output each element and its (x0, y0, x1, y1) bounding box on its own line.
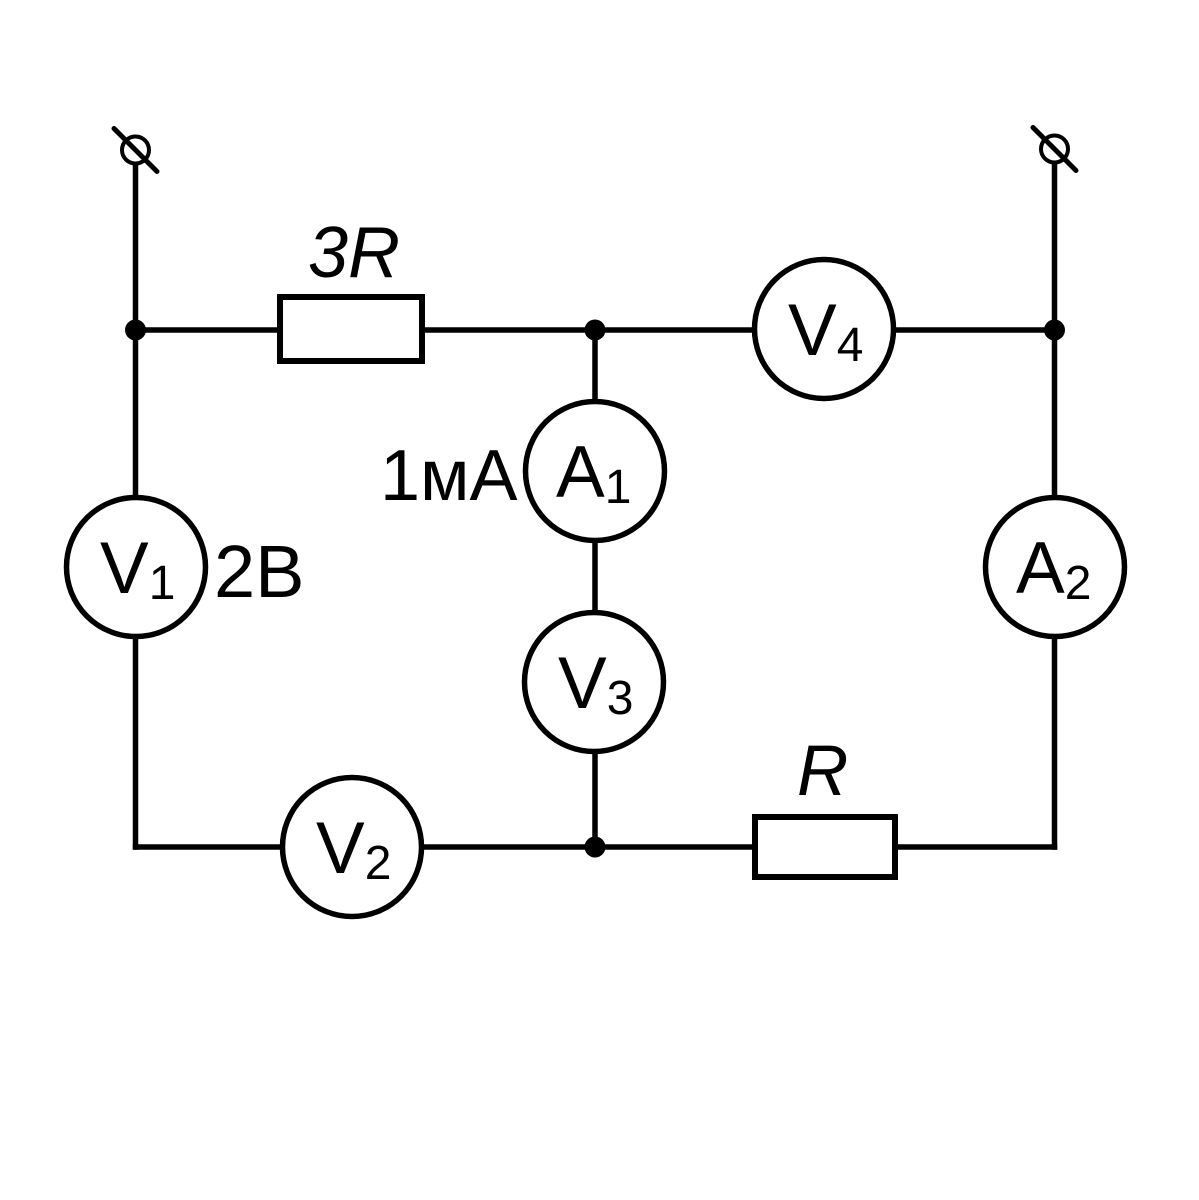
voltmeter V1 (67, 498, 206, 637)
terminal right (1033, 128, 1076, 171)
wire bottom horizontal branch (133, 844, 1057, 850)
node top-right junction (1044, 320, 1065, 341)
resistor R (755, 817, 895, 877)
wire middle vertical branch (592, 330, 598, 847)
terminal left (114, 129, 157, 172)
node bottom-middle junction (585, 837, 606, 858)
wire right vertical branch (1052, 164, 1058, 850)
wire left vertical branch (133, 164, 139, 850)
ammeter A2 (986, 498, 1125, 637)
voltmeter V2 (283, 778, 422, 917)
ammeter A1 (526, 402, 665, 541)
wire top horizontal branch (136, 327, 1055, 333)
resistor 3R (280, 297, 422, 361)
svg-text:2В: 2В (214, 530, 305, 613)
voltmeter V3 (525, 613, 664, 752)
node top-left junction (125, 320, 146, 341)
svg-text:3R: 3R (308, 213, 400, 293)
svg-text:R: R (797, 732, 848, 811)
node top-middle junction (585, 320, 606, 341)
svg-text:1мА: 1мА (380, 436, 518, 516)
voltmeter V4 (755, 260, 894, 399)
